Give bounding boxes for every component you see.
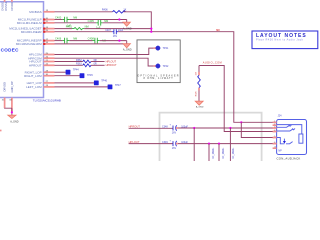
wire MIC2L join bus	[84, 28, 151, 30]
junction HPROUT v1	[193, 127, 195, 129]
jack inner sleeve line	[277, 125, 302, 134]
svg-text:RIGHT_LOM: RIGHT_LOM	[24, 74, 42, 78]
svg-text:CODEC: CODEC	[1, 47, 19, 52]
svg-text:R363: R363	[76, 63, 82, 66]
ground arrow A_GND upper	[123, 20, 130, 27]
pin 14 MIC2L stub	[44, 28, 55, 30]
junction MIC2L bus	[150, 28, 152, 30]
pin 16 MIC1RM stub	[44, 43, 55, 45]
capacitor C408 NM	[88, 37, 106, 44]
wire MIC1RM row	[55, 43, 124, 45]
svg-text:C407: C407	[105, 29, 111, 32]
svg-text:AUDIO_COM: AUDIO_COM	[203, 61, 222, 65]
svg-text:A_GND: A_GND	[123, 27, 132, 30]
svg-text:6: 6	[274, 142, 275, 144]
stray pin tick left edge	[0, 130, 2, 132]
svg-text:DF_2860L: DF_2860L	[212, 147, 215, 159]
wire NC branch to jack pin5	[241, 122, 276, 137]
pin 30 RIGHT_LOM stub	[44, 75, 55, 77]
svg-text:3: 3	[274, 127, 275, 129]
wire HPROUT to jack	[178, 127, 277, 129]
pin 27 LEFT_LOP stub	[44, 82, 55, 84]
svg-text:C348: C348	[162, 125, 168, 128]
pin 33 bottom stub	[11, 98, 13, 112]
svg-text:NM: NM	[85, 25, 89, 29]
svg-text:5: 5	[274, 136, 275, 138]
wire MIC1LP row	[55, 19, 63, 21]
red pin entry square pin16	[43, 43, 45, 45]
svg-text:NC: NC	[216, 28, 220, 32]
wire MIC2L row	[55, 28, 73, 30]
svg-text:C405: C405	[88, 19, 95, 23]
wire vertical drop x209	[208, 144, 210, 161]
svg-text:GND_DP: GND_DP	[10, 81, 14, 92]
svg-text:2: 2	[274, 124, 275, 126]
svg-text:J24: J24	[278, 114, 283, 117]
svg-text:1: 1	[274, 121, 275, 123]
wire RIGHT_LOM to TP45	[55, 75, 80, 77]
capacitor C405 NM	[88, 19, 109, 30]
svg-text:1K: 1K	[123, 9, 126, 12]
junction HPLOUT v1	[208, 143, 210, 145]
wire HPRCOM to speaker box	[55, 58, 154, 66]
junction MIC1LP	[118, 18, 120, 20]
junction NC branch	[240, 121, 242, 123]
svg-text:IOVDD: IOVDD	[10, 2, 14, 11]
svg-text:CON_AUDJACK: CON_AUDJACK	[276, 156, 300, 160]
svg-text:HPROUT: HPROUT	[106, 63, 117, 67]
svg-text:C349: C349	[162, 141, 168, 144]
ground arrow A_GND lower	[123, 41, 130, 48]
wire MIC2R long net with NC to jack pin1	[118, 32, 277, 123]
jack TP41 circle	[156, 46, 169, 50]
svg-text:NM: NM	[73, 16, 77, 20]
junction HPROUT v2	[229, 127, 231, 129]
svg-text:LEFT_LOM: LEFT_LOM	[26, 85, 42, 89]
svg-text:TP41: TP41	[163, 47, 169, 50]
svg-text:TP45: TP45	[87, 74, 93, 77]
wire MIC1RP middle	[69, 40, 92, 42]
gray DNI region box bottom center	[160, 113, 262, 161]
resistor R426	[196, 71, 201, 96]
wire MIC1RP to ground corner	[100, 40, 127, 42]
pin 25 HPLCOM stub	[44, 54, 55, 56]
pin 29 RIGHT_LOP stub	[44, 71, 55, 73]
svg-text:HPROUT: HPROUT	[29, 63, 42, 67]
svg-text:4: 4	[274, 130, 275, 132]
jack switch lever 1	[277, 125, 290, 127]
svg-text:DF_2860L: DF_2860L	[222, 147, 225, 159]
wire HPLOUT to jack	[178, 143, 277, 145]
svg-text:NM: NM	[104, 19, 108, 23]
resistor R401 NM	[66, 25, 89, 30]
jack pin stubs	[273, 122, 277, 148]
svg-text:TP44: TP44	[73, 69, 79, 72]
wire MIC2R row	[55, 31, 113, 33]
svg-text:MIC1RM/LINE1RM: MIC1RM/LINE1RM	[16, 42, 42, 46]
svg-text:16V: 16V	[113, 35, 118, 38]
svg-text:DF_2860L: DF_2860L	[232, 147, 235, 159]
svg-text:NP: NP	[278, 149, 282, 152]
capacitor C349 100uF	[162, 139, 189, 150]
svg-text:R401: R401	[66, 25, 73, 29]
svg-text:HPLOUT: HPLOUT	[106, 59, 117, 63]
svg-text:A_GND: A_GND	[123, 49, 132, 52]
resistor R363 0R	[76, 63, 97, 67]
optional speaker box	[137, 40, 180, 83]
wire bottom pins to A_GND	[5, 107, 12, 109]
svg-text:MIC1LM/LINE1LM: MIC1LM/LINE1LM	[17, 21, 42, 25]
capacitor C406 NM	[55, 37, 77, 44]
ground arrow A_GND bottom left	[8, 115, 16, 118]
pin 22 HPROUT stub	[44, 64, 55, 66]
svg-text:R406: R406	[102, 8, 108, 11]
capacitor C400 NM	[55, 16, 77, 28]
pin 11 MIC1LM stub	[44, 22, 55, 24]
wire MICBIAS to bus	[124, 12, 152, 32]
svg-text:NM: NM	[73, 37, 77, 41]
pin 31 bottom stub	[4, 98, 6, 108]
svg-text:C408: C408	[88, 37, 95, 41]
pin 28 LEFT_LOM stub	[44, 86, 55, 88]
wire HPLOUT pin row	[55, 61, 83, 63]
junction MICBIAS joins MIC2R	[150, 31, 152, 33]
test point TP47	[108, 85, 113, 90]
jack pin numbers	[274, 121, 276, 149]
svg-text:TP42: TP42	[163, 65, 169, 68]
svg-text:16V: 16V	[172, 132, 177, 135]
pin 13 MICBIAS stub	[44, 11, 55, 13]
test point TP44	[66, 70, 71, 75]
svg-text:16V: 16V	[172, 147, 177, 150]
wire MIC1LM row	[55, 22, 97, 24]
junction MIC1RP	[118, 40, 120, 42]
svg-text:A_GND: A_GND	[196, 105, 204, 108]
svg-text:C406: C406	[55, 37, 62, 41]
svg-text:TLV320AIC3101IRHB: TLV320AIC3101IRHB	[33, 98, 61, 102]
wire HPROUT pin row	[55, 64, 83, 66]
wire MIC1LM join	[103, 22, 124, 24]
svg-text:C400: C400	[55, 16, 62, 20]
wire LEFT_LOP to TP46	[55, 82, 95, 84]
svg-text:DRVDD: DRVDD	[3, 82, 7, 92]
connector J24 audio jack	[277, 114, 307, 154]
wire vertical drop x219	[218, 144, 220, 161]
wire vertical drop x194	[193, 128, 195, 161]
svg-text:Place R426 Next to Audio Jack: Place R426 Next to Audio Jack	[256, 39, 304, 42]
svg-text:MIC2R/LINE2R: MIC2R/LINE2R	[21, 30, 43, 34]
pin 12 MIC1RP stub	[44, 40, 55, 42]
red pin entry square pin11	[43, 22, 45, 24]
svg-text:8 OHM, 1/2WATT: 8 OHM, 1/2WATT	[144, 77, 174, 80]
capacitor C348 100uF	[162, 124, 189, 135]
top pin stub x=4.6	[4, 0, 6, 2]
wire HPLCOM to speaker box	[55, 48, 154, 54]
svg-text:DVSS1: DVSS1	[4, 1, 8, 10]
test point TP46	[94, 81, 99, 86]
layout notes box	[252, 31, 318, 49]
red pin entry square pin10	[43, 18, 45, 20]
top pin stub x=11.9	[11, 0, 13, 2]
wire vertical drop x230	[229, 128, 231, 161]
svg-text:MICBIAS: MICBIAS	[29, 10, 41, 14]
pin 26 HPRCOM stub	[44, 57, 55, 59]
junction HPLOUT v2	[218, 143, 220, 145]
wire HPROUT to C348	[129, 127, 173, 129]
wire AUDIO_COM	[199, 66, 277, 132]
test point TP45	[80, 73, 85, 78]
wire to HPLOUT label	[91, 61, 105, 63]
svg-text:TP47: TP47	[115, 84, 121, 87]
pin 21 HPLOUT stub	[44, 61, 55, 63]
svg-text:A_GND: A_GND	[10, 121, 19, 124]
svg-text:R362: R362	[76, 59, 82, 62]
red pin entry square pin12	[43, 40, 45, 42]
svg-text:TP46: TP46	[101, 80, 107, 83]
capacitor C407	[105, 29, 124, 38]
pin 10 MIC1LP stub	[44, 19, 55, 21]
jack TP42 circle	[156, 64, 169, 68]
wire RIGHT_LOP to TP44	[55, 71, 66, 73]
resistor R406	[113, 11, 126, 14]
wire to HPROUT label	[91, 64, 105, 66]
junction bottom ground	[11, 111, 13, 113]
jack switch lever 2	[277, 129, 293, 131]
IC U1 codec body TLV320AIC3101IRHB	[0, 2, 44, 98]
jack tip contact rect	[299, 134, 303, 143]
wire AUDIO_COM down to R426	[198, 66, 200, 73]
wire HPLOUT to C349	[129, 143, 173, 145]
red pin entry square pin14	[43, 28, 45, 30]
jack tip arm with arrow	[277, 138, 284, 144]
resistor R362 0R	[76, 59, 97, 63]
pin 15 MIC2R stub	[44, 31, 55, 33]
ground arrow A_GND at R426	[195, 101, 203, 105]
wire MIC1RP row	[55, 40, 63, 42]
red pin entry square pin15	[43, 31, 45, 33]
wire MIC1LP to ground corner	[69, 19, 126, 21]
wire LEFT_LOM to TP47	[55, 86, 108, 88]
wire MICBIAS net	[55, 11, 113, 13]
